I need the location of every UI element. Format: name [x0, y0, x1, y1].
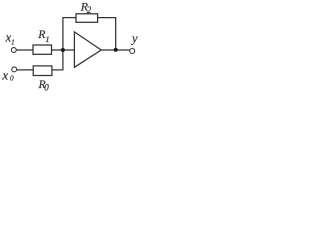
terminal x1 circle — [11, 48, 16, 53]
wire R2 to output branch — [98, 17, 116, 19]
wire output branch vertical — [115, 17, 117, 50]
op-amp U1 triangle — [74, 32, 101, 67]
svg-text:x: x — [1, 68, 8, 83]
resistor R1 box — [33, 45, 52, 54]
wire op-amp output to y — [101, 49, 130, 51]
terminal x0 circle — [12, 67, 17, 72]
resistor R0 box — [33, 66, 52, 76]
node A junction dot — [61, 48, 65, 52]
wire R1 to op-amp input — [52, 49, 75, 51]
svg-text:y: y — [130, 32, 138, 46]
svg-text:2: 2 — [87, 5, 92, 15]
svg-text:1: 1 — [45, 34, 49, 44]
wire x0 to R0 — [17, 69, 34, 71]
wire x1 to R1 — [16, 49, 33, 51]
svg-text:0: 0 — [44, 82, 49, 92]
output node junction dot — [114, 48, 118, 52]
resistor R2 box — [76, 14, 98, 22]
wire feedback vertical from node A — [62, 17, 64, 50]
svg-text:0: 0 — [10, 74, 14, 83]
svg-text:1: 1 — [11, 37, 15, 46]
wire feedback horizontal to R2 — [63, 17, 76, 19]
terminal y circle — [130, 49, 135, 54]
wire R0 to node A — [52, 50, 63, 70]
